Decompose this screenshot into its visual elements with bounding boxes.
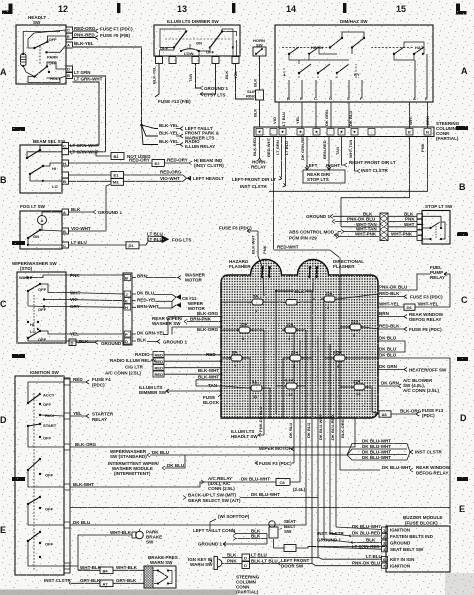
hazard flasher [229,259,271,278]
stop lamp switch [417,204,453,244]
park brake switch [90,529,162,545]
wires dim/haz sw to column conn with colors [272,102,430,128]
scan shading bottom [0,573,474,595]
wire WHT-TAN row 2 [341,227,417,234]
seat belt switch [269,519,296,548]
wiper switch internals [19,275,66,342]
ruler dash left [12,241,25,245]
wire BLK YEL long vertical to fog area [224,64,254,100]
wire BLK horn to slip ring [253,56,260,90]
ruler tick I [343,3,346,13]
buzzer row3 BLK ground [317,537,382,543]
wire LT BLU to inst clstr [240,137,289,190]
wire DK BLU lower [70,420,306,525]
steering column conn bottom label [236,575,260,595]
fuse 15A mid left [236,322,253,342]
long feed to buzzer top [70,507,450,509]
wire GRY / BRN-WHT [66,304,172,309]
wire DK GRN heater sw [378,364,447,373]
arrows to wiper motor [172,294,206,311]
buzzer row6 LT BLU [318,554,382,559]
wire BLK to ground 1 [66,338,187,345]
ac conn feed [105,371,221,377]
fuse block (stippled) [221,260,378,419]
ruler dash left [12,354,25,358]
wire BLK-YEL front park lamps [159,131,220,141]
wires BLK-ORG into fuse block [168,311,221,335]
buzzer row2 DK BLU-RED inst clstr [317,531,382,537]
headlamp switch S1 [16,15,73,84]
label rear wiper washer sw [152,316,221,326]
fuse 5A bottom left [248,380,265,400]
wire DK BLU wiper feed [110,449,347,459]
wire BLK-YEL to dimmer feed [73,41,142,125]
wire to courtesy lamps [200,64,226,98]
abs control module label [289,230,341,241]
ruler column 14 [286,4,296,14]
wire RED-BLK fuse F3 [378,291,443,300]
slip ring [246,89,264,100]
seat belt inline connector [274,545,387,552]
cigar lighter feed [125,364,221,370]
ign key in warn switch [188,553,250,570]
fuse 20A lower mid [287,350,304,370]
fuse 15A upper right [321,291,338,311]
wire WHT-BLK B4 row [78,565,144,574]
wire BRN-RED to right rear [322,137,340,171]
wiper switch connector strip [123,273,132,345]
wiper ground row D BLK [69,339,125,346]
radio illum relay feed [110,358,221,364]
wire PNK long run to hazard flasher [269,137,428,192]
connector A8 BLK-ORG fuse F13 [379,408,444,418]
wire LT GRN-WHT row 2 [69,150,106,155]
wire BLK-RED to horn relay [251,137,266,170]
fog lamp switch [20,204,69,249]
wire WHT-YEL D6 [378,302,450,311]
stop lamp switch internals [423,216,446,240]
wire RED-ORG to fuse F7 [73,26,134,33]
dimmer / hazard switch [275,19,433,102]
beam select switch internals [26,146,62,190]
wire PNK to washer motor [66,273,206,283]
fuse 6.3A bottom mid [283,378,300,398]
brake pressure warning switch [144,555,178,588]
illum lts headlt sw row [231,429,264,439]
softtop note [210,514,250,529]
ruler row B right [459,182,466,192]
wire BLK-YEL radio illum relay [159,139,215,149]
ruler dash left [12,127,25,131]
headlamp switch internals [21,30,67,83]
wire BLK between flashers [276,278,313,294]
wire WHT-TAN row [341,222,417,227]
illum lamps dimmer switch [154,19,240,64]
AC relay row with C8 [201,476,306,492]
wire TAN right front dir [335,137,396,168]
ruler dash right [457,357,468,361]
ignition switch internals [27,382,64,570]
wiper washer switch [12,261,66,343]
ruler column 13 [177,4,187,14]
fuse 25A mid right [347,319,364,339]
wiper motor row [259,446,294,451]
ruler row E left [0,525,6,535]
dim/haz switch internals [282,32,428,101]
wires BLK-WHT labels at block left [196,368,223,388]
fuse 8A lower left [228,350,245,370]
ruler tick I [232,3,235,13]
rear dir stop lamps box label [303,170,345,183]
wire WHT / DK BLU [66,290,172,295]
wire GRY-BLK A7 row inst clstr [44,578,144,587]
backup lamp switch row [183,492,318,503]
horn switch [253,38,266,56]
ruler row B left [0,175,7,185]
left taillamp connector rows [193,528,267,544]
wire YEL / DK GRN-YEL [66,331,168,337]
wire VIO / RED-YEL to C8 [66,296,197,302]
component inline [283,300,300,306]
ruler column 12 [58,4,68,14]
door switch rows [250,553,319,569]
ruler row C left [0,299,7,309]
wire LT GRN to left front dir [232,137,282,183]
wire DK GRN-RED to left rear [300,134,318,170]
beam select switch [20,139,69,193]
connector E1 RED-ORG [69,170,184,179]
wire WHT-PNK row [336,231,417,238]
connector B1 not used [96,152,151,160]
wire BLK-WHT vertical to hazard flasher [251,231,263,266]
wire LT GRN-WHT [73,77,103,146]
wire DK BLU third [378,353,450,524]
ruler dash right [457,477,468,481]
fuse 6.5A lower right [331,350,348,370]
wires RED into block left [206,317,223,392]
fuse 10A mid [282,322,299,342]
ground 1 bottom row [198,542,267,547]
fuel pump relay [430,265,450,307]
wire LT GRN-WHT row 1 [69,143,100,148]
rear wiper washer feed BRN-PNK [0,0,1,1]
wire PNK down from column conn [420,143,425,152]
inst clstr fan DK BLU-WHT x4 [347,439,442,461]
wire RED-BLK fuse F8 [378,324,442,333]
ruler row C right [461,295,468,305]
illum lts dimmer sw feed row [139,385,221,395]
ruler row A left [0,67,7,77]
wire LT BLU fog lamps [69,232,192,249]
wire BLK fog to ground [69,207,123,215]
ruler dash right [457,232,468,236]
wire RED-WHT into block [274,245,341,276]
wire WHT loop into row 3 [341,137,410,227]
wire RED-ORY to hi beam ind [69,158,225,169]
fuse F3 pointer [255,461,294,466]
fuse 5A [249,294,266,314]
DK BLU-WHT rear defog row [340,465,451,476]
ruler corner mark L [456,4,467,15]
fuse F6 label [219,226,258,234]
ruler row A right [461,66,468,76]
directional flasher [308,259,364,278]
wire to park brake vertical [64,535,90,570]
wire BLK-YEL left taillamp [159,123,213,131]
ruler dash left [12,477,25,481]
wire RED fuse F4 [70,377,111,388]
ruler column 15 [396,4,406,14]
wire VIO-WHT fog [69,184,112,231]
wire LT GRN [73,70,106,151]
fuse block internal wiring [222,275,379,420]
fuse 25A bottom right [351,379,368,397]
BLK-YEL taillamp fan node [140,124,158,145]
wire BLK-YEL dimmer feed vertical [152,64,192,105]
wire BLK-WHT to AC relay [70,482,204,487]
wire TAN to ground 1 [188,64,228,92]
wire PNK-RED to fuse #9 [73,33,131,40]
wire DK BLU loop [378,336,405,353]
buzzer row4 LT GRN-RED [308,544,382,549]
wire RED-WHT down [266,137,274,251]
buzzer module [382,515,451,572]
wire BLK slip ring to column conn [253,100,260,127]
wire ground 1 BLK row [306,211,417,219]
wire WHT-TAN inst clstr [348,137,388,174]
wire PNK-DK BLU row [332,217,417,224]
steering column conn label [436,121,468,141]
buzzer row7 PNK-DK BLU [312,561,382,566]
wire DK GRN ac blower [378,378,439,393]
wire BLK-ORG to fuse F13 [70,414,379,447]
buzzer row1 DK BLU-WHT [336,524,382,530]
wire PNK-DK BLU right exit [378,274,430,290]
dimmer switch internals [160,29,237,56]
stop sw inline connector [380,213,388,241]
ignition switch [15,370,70,575]
radio feed stack [135,352,221,358]
wire DK BLU intermittent wiper [108,455,185,476]
steering column connector strip [254,127,434,137]
ruler row E right [459,504,465,514]
wire PNK vertical to hazard flasher [262,245,267,254]
fog lamp switch internals [27,212,62,246]
ruler tick I [117,3,120,13]
block bottom vertical wires [258,407,345,564]
fuse block pointer label [203,393,222,405]
ruler corner mark J [2,4,13,15]
ruler row D left [0,415,7,425]
arrow to left headlamp [183,175,224,181]
connector M3 VIO-WHT [69,176,184,185]
wire YEL starter relay [70,411,114,422]
wire BRN rear defog relay [378,311,444,322]
ruler row D right [460,413,467,423]
